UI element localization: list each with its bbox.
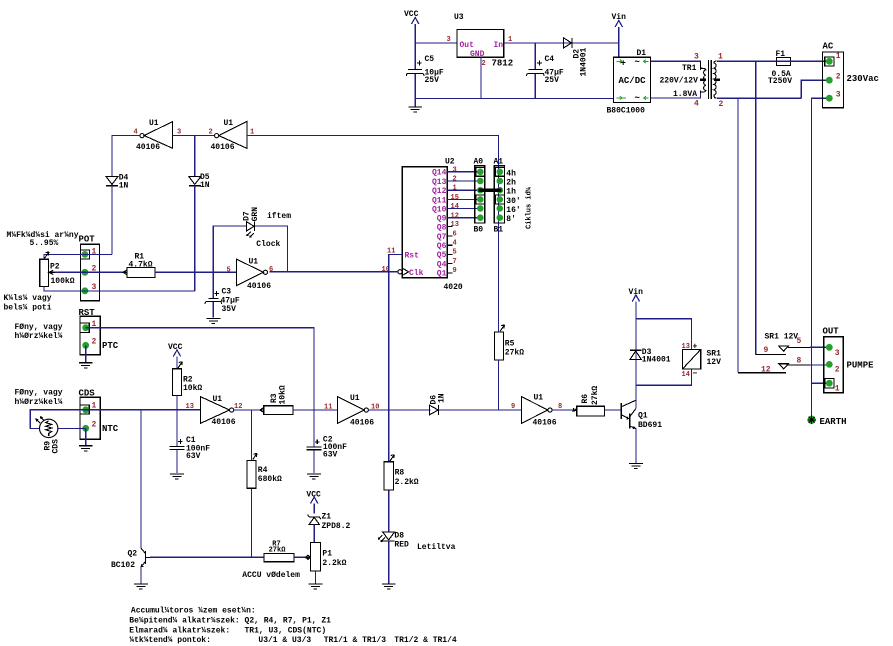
svg-text:+: + (693, 343, 698, 352)
svg-text:B80C1000: B80C1000 (607, 107, 646, 116)
wire P1 to ground (315, 571, 317, 584)
wire AC pad2 to TR1 pin2 (801, 80, 829, 98)
svg-text:TR1: TR1 (682, 64, 697, 73)
wire R3 to gate 11 (293, 409, 338, 411)
diode D6 (429, 393, 446, 415)
connector RST (79, 308, 119, 355)
wire junction to relay contact (live) (755, 61, 757, 354)
ground below D8 (382, 584, 396, 589)
svg-text:Q7: Q7 (437, 233, 447, 242)
svg-text:U1: U1 (224, 119, 234, 128)
wire R7 to P1 wiper (294, 556, 306, 558)
resistor R3 (260, 385, 293, 415)
wire inverter out to D4 (112, 136, 140, 177)
svg-text:U1: U1 (149, 119, 159, 128)
svg-text:Q5: Q5 (437, 251, 447, 260)
svg-text:1N4001: 1N4001 (642, 356, 671, 365)
svg-text:TR1/2 & TR1/4: TR1/2 & TR1/4 (394, 636, 457, 645)
ground below Q1 (629, 463, 643, 468)
resistor R5 (495, 325, 525, 410)
svg-text:C5: C5 (425, 55, 435, 64)
inverter U1 gate B (pins 2-1) (209, 119, 255, 152)
wire gate 12 to R3 (234, 409, 264, 411)
svg-text:iftem: iftem (267, 212, 291, 221)
svg-text:bels¼ poti: bels¼ poti (4, 304, 52, 313)
svg-text:3: 3 (694, 53, 699, 62)
svg-text:1: 1 (836, 52, 841, 61)
svg-text:9: 9 (764, 346, 769, 355)
svg-text:2: 2 (836, 73, 841, 82)
svg-text:2.2kΩ: 2.2kΩ (322, 559, 346, 568)
svg-text:63V: 63V (323, 451, 338, 460)
transistor Q1 BD691 (621, 400, 662, 430)
svg-text:P1: P1 (322, 550, 332, 559)
diode D4 (106, 174, 129, 191)
svg-text:1N: 1N (437, 393, 446, 403)
svg-text:Q2: Q2 (128, 550, 138, 559)
svg-text:230Vac: 230Vac (847, 74, 879, 84)
resistor R8 (384, 410, 419, 532)
jumper bar A0-A1 (1h) (479, 188, 502, 192)
wire POT pad1 to D4 net (85, 253, 112, 255)
svg-text:CDS: CDS (52, 439, 61, 454)
svg-text:27kΩ: 27kΩ (505, 349, 524, 358)
resistor R2 (172, 362, 202, 396)
svg-text:2: 2 (835, 366, 840, 375)
svg-text:PTC: PTC (102, 341, 119, 351)
svg-text:OUT: OUT (823, 327, 840, 337)
VCC above R2 (168, 343, 183, 369)
svg-text:2.2kΩ: 2.2kΩ (395, 478, 419, 487)
svg-text:TR1, U3, CDS(NTC): TR1, U3, CDS(NTC) (245, 626, 327, 635)
svg-text:ZPD8.2: ZPD8.2 (322, 522, 351, 531)
label Kulso vagy belso poti (4, 294, 52, 313)
svg-text:~: ~ (635, 94, 640, 104)
wire gate 10 to D6 (368, 409, 430, 411)
connector CDS (79, 389, 119, 440)
svg-text:5..95%: 5..95% (30, 239, 59, 248)
svg-text:FØny, vagy: FØny, vagy (15, 389, 63, 398)
label Feny vagy (RST) (15, 323, 63, 341)
svg-text:12: 12 (451, 212, 459, 220)
ground below C2 (307, 474, 321, 479)
svg-text:3: 3 (836, 91, 841, 100)
label Mukodesi arany (7, 231, 79, 248)
svg-text:U1: U1 (213, 395, 223, 404)
svg-text:Q6: Q6 (437, 242, 447, 251)
transistor Q2 BC102 (111, 548, 150, 570)
wire R1 to oscillator input (155, 271, 237, 273)
wire to OUT pad1 (812, 382, 830, 384)
svg-text:14: 14 (451, 203, 459, 211)
svg-text:R6: R6 (581, 394, 590, 404)
svg-text:9: 9 (511, 403, 515, 411)
svg-text:10kΩ: 10kΩ (279, 385, 288, 404)
diode D5 (189, 173, 210, 190)
svg-text:AC/DC: AC/DC (619, 76, 647, 86)
wire R6 to Q1 base (604, 409, 621, 411)
svg-text:2: 2 (209, 129, 213, 137)
wire TR1 pin2 net down to relay contact (737, 98, 739, 373)
svg-text:GRN: GRN (251, 207, 260, 222)
svg-text:VCC: VCC (168, 343, 183, 352)
LED D8 (disable indicator) (378, 531, 409, 549)
photoresistor R9 CDS (30, 410, 85, 454)
main signal line (CDS to gate 13) (86, 409, 201, 411)
diode D3 1N4001 (630, 348, 671, 365)
ground below CDS pad2 (79, 428, 93, 451)
bridge rectifier D1 (607, 49, 651, 116)
svg-text:680kΩ: 680kΩ (258, 475, 282, 484)
svg-text:220V/12V: 220V/12V (660, 77, 699, 86)
svg-text:A0: A0 (474, 158, 484, 167)
VCC symbol (top left) (404, 10, 419, 43)
wire U3 In to Vin node (504, 42, 619, 44)
regulator U3 7812 (454, 13, 513, 69)
svg-text:16': 16' (506, 206, 520, 215)
svg-text:NTC: NTC (102, 424, 119, 434)
svg-text:10kΩ: 10kΩ (183, 384, 202, 393)
svg-text:9: 9 (453, 267, 457, 275)
svg-text:T250V: T250V (768, 77, 792, 86)
ground below C5 (408, 99, 422, 113)
wire D5 down to P2 bottom net (194, 186, 196, 291)
wire D6 to gate 9 (438, 409, 521, 411)
svg-text:40106: 40106 (212, 418, 236, 427)
capacitor C2 (306, 410, 347, 473)
svg-text:Accumul¼toros ¼zem eset¼n:: Accumul¼toros ¼zem eset¼n: (131, 606, 256, 615)
capacitor C4 (526, 43, 564, 99)
ground below P1 (309, 584, 323, 589)
LED D7 (clock indicator) (243, 207, 261, 237)
svg-text:1h: 1h (506, 188, 516, 197)
wire gate B pin1 to R5 net (247, 136, 499, 332)
relay coil SR1 (682, 343, 722, 379)
svg-text:Q10: Q10 (432, 206, 447, 215)
wire D1 to TR1 secondary top (651, 61, 701, 70)
svg-text:1: 1 (835, 385, 840, 394)
svg-text:Clock: Clock (256, 240, 280, 249)
resistor R4 (247, 410, 282, 557)
svg-text:27kΩ: 27kΩ (269, 547, 287, 555)
inverter U1 gate (pins 13-12) (186, 395, 243, 427)
svg-text:Q11: Q11 (432, 196, 447, 205)
svg-text:2: 2 (92, 338, 97, 347)
wire TR1 primary top to fuse (717, 60, 776, 62)
svg-text:RST: RST (79, 308, 96, 318)
svg-text:7: 7 (453, 258, 457, 266)
svg-text:Q8: Q8 (437, 224, 447, 233)
svg-text:3: 3 (92, 283, 97, 292)
svg-text:27kΩ: 27kΩ (591, 386, 600, 405)
svg-text:Q9: Q9 (437, 214, 447, 223)
wire POT pad2 to R1 (85, 271, 127, 273)
svg-text:U1: U1 (534, 394, 544, 403)
svg-text:Q12: Q12 (432, 187, 447, 196)
potentiometer P2 (40, 252, 85, 291)
svg-text:¼tk¼tend¼ pontok:: ¼tk¼tend¼ pontok: (129, 636, 211, 645)
svg-text:R5: R5 (505, 340, 515, 349)
svg-text:Be¼pitend¼ alkatr¼szek: Q2, R4: Be¼pitend¼ alkatr¼szek: Q2, R4, R7, P1, … (129, 616, 331, 625)
wire D1 to TR1 secondary bottom (651, 91, 701, 99)
svg-text:U1: U1 (249, 258, 259, 267)
zener Z1 ZPD8.2 (308, 513, 351, 532)
connector A0/B0 (474, 158, 485, 235)
inverter U1 gate (pins 11-10) (324, 394, 379, 427)
wire contact1 to OUT pad3 (810, 346, 829, 348)
svg-text:4020: 4020 (444, 283, 463, 292)
time select labels (506, 169, 520, 224)
svg-text:8': 8' (506, 215, 516, 224)
svg-text:Letiltva: Letiltva (417, 543, 456, 552)
svg-text:4.7kΩ: 4.7kΩ (129, 261, 153, 270)
svg-text:K¼ls¼ vagy: K¼ls¼ vagy (4, 294, 52, 303)
svg-text:6: 6 (269, 266, 273, 274)
svg-text:h¼Ørz¼kel¼: h¼Ørz¼kel¼ (15, 398, 63, 407)
svg-text:2h: 2h (506, 179, 516, 188)
svg-text:5: 5 (797, 337, 802, 346)
svg-text:5: 5 (227, 267, 231, 275)
svg-text:In: In (494, 41, 504, 50)
wire Clk pin to oscillator (270, 271, 398, 273)
wires U2 outputs to A0 pads (447, 172, 480, 218)
svg-text:U2: U2 (445, 158, 455, 167)
svg-text:25V: 25V (425, 76, 440, 85)
connector POT (79, 235, 100, 301)
wire Vin down to Q1 collector (635, 319, 637, 409)
svg-text:12V: 12V (707, 358, 722, 367)
svg-text:EARTH: EARTH (820, 417, 847, 427)
svg-text:100kΩ: 100kΩ (51, 277, 75, 286)
svg-text:Rst: Rst (405, 251, 420, 260)
svg-text:B1: B1 (494, 226, 504, 235)
capacitor C5 (406, 43, 444, 99)
wire Z1 to P1 (313, 524, 315, 542)
svg-text:2: 2 (453, 176, 457, 184)
svg-text:13: 13 (186, 403, 194, 411)
ground rail (left of D1) (415, 98, 613, 100)
svg-text:25V: 25V (545, 76, 560, 85)
EARTH pad (807, 416, 846, 428)
svg-text:C4: C4 (545, 55, 555, 64)
wire Vin down to D1 (618, 43, 620, 57)
svg-text:Q1: Q1 (437, 270, 447, 279)
wire D3 to coil bottom rail (636, 359, 692, 385)
capacitor C3 (205, 272, 240, 318)
wire VCC to U3 pin 3 (415, 42, 457, 44)
svg-text:A1: A1 (494, 158, 504, 167)
ground below RST pad2 (79, 345, 93, 368)
svg-text:+: + (621, 59, 626, 69)
svg-text:4: 4 (694, 100, 699, 109)
svg-text:R8: R8 (395, 469, 405, 478)
wire between gates (173, 135, 215, 137)
U2 pin numbers (382, 166, 459, 275)
svg-text:BC102: BC102 (111, 561, 135, 570)
svg-text:Elmarad¼ alkatr¼szek:: Elmarad¼ alkatr¼szek: (129, 626, 230, 635)
svg-text:Q1: Q1 (638, 412, 648, 421)
wire main line down to Q2 (140, 410, 142, 548)
svg-text:TR1/1 & TR1/3: TR1/1 & TR1/3 (324, 636, 387, 645)
svg-text:Z1: Z1 (322, 513, 332, 522)
svg-text:4: 4 (453, 240, 457, 248)
svg-text:13: 13 (451, 221, 459, 229)
svg-text:5: 5 (453, 249, 457, 257)
Vin symbol (top) (612, 13, 627, 43)
wire gate 8 to R6 (552, 409, 577, 411)
wire Q2 emitter to ground (140, 567, 142, 584)
svg-text:3: 3 (447, 36, 451, 44)
svg-text:Out: Out (460, 41, 475, 50)
wire R2 to main line (176, 396, 178, 410)
svg-text:6: 6 (453, 230, 457, 238)
svg-text:1.8VA: 1.8VA (673, 90, 697, 99)
label Feny vagy (CDS) (15, 389, 63, 408)
IC U2 4020 counter (398, 158, 463, 293)
svg-text:40106: 40106 (136, 143, 160, 152)
svg-text:U1: U1 (350, 394, 360, 403)
svg-text:1N4001: 1N4001 (580, 47, 589, 76)
ground below Q2 (134, 584, 148, 589)
wire junction down to D5 (194, 136, 196, 177)
oscillator inverter U1 (pins 5-6) (227, 258, 274, 292)
svg-text:7812: 7812 (492, 59, 514, 69)
svg-text:P2: P2 (50, 263, 60, 272)
capacitor C1 (170, 410, 211, 473)
wire down to earth pad (811, 383, 813, 415)
svg-text:Q14: Q14 (432, 169, 447, 178)
svg-text:30': 30' (506, 197, 520, 206)
resistor R7 (264, 541, 294, 562)
wire Q2 base to R7 (150, 556, 264, 558)
svg-text:11: 11 (324, 404, 332, 412)
svg-text:40106: 40106 (350, 419, 374, 428)
connector OUT (823, 327, 875, 394)
svg-text:2: 2 (92, 421, 97, 430)
svg-text:PUMPE: PUMPE (847, 361, 875, 371)
svg-text:B0: B0 (474, 226, 484, 235)
connector AC (823, 42, 879, 108)
resistor R1 (123, 253, 155, 278)
svg-text:R4: R4 (258, 466, 268, 475)
svg-text:CDS: CDS (79, 389, 96, 399)
wire POT pad3 to D5 (85, 290, 195, 292)
svg-text:FØny, vagy: FØny, vagy (15, 323, 63, 332)
svg-text:SR1 12V: SR1 12V (765, 333, 799, 342)
ground below C3 (207, 318, 221, 323)
svg-text:4h: 4h (506, 169, 516, 178)
svg-text:1: 1 (453, 185, 457, 193)
inverter U1 gate (pins 9-8) (511, 394, 562, 428)
fuse F1 (768, 50, 792, 86)
svg-text:Q4: Q4 (437, 260, 447, 269)
svg-text:GND: GND (470, 50, 485, 59)
svg-text:12: 12 (761, 365, 771, 374)
svg-text:8: 8 (797, 357, 802, 366)
wire TR1 primary bottom (717, 97, 801, 99)
svg-text:U3: U3 (454, 13, 464, 22)
svg-text:U3/1 & U3/3: U3/1 & U3/3 (258, 636, 311, 645)
VCC above Z1 (306, 491, 321, 514)
relay contact 2 (738, 357, 810, 375)
svg-text:VCC: VCC (404, 10, 419, 19)
svg-text:40106: 40106 (211, 143, 235, 152)
svg-text:13: 13 (682, 343, 690, 351)
svg-text:3: 3 (835, 349, 840, 358)
svg-text:~: ~ (635, 58, 640, 68)
resistor R6 (573, 386, 605, 416)
svg-text:C3: C3 (222, 288, 232, 297)
svg-text:RED: RED (394, 540, 409, 549)
svg-text:40106: 40106 (247, 282, 271, 291)
wire RST pad1 to main line (86, 328, 314, 410)
svg-text:2: 2 (482, 60, 486, 68)
relay contact 1 (756, 337, 810, 355)
svg-text:D8: D8 (394, 531, 404, 540)
svg-text:h¼Ørz¼kel¼: h¼Ørz¼kel¼ (15, 332, 63, 341)
wire AC pad3 down to pump (812, 98, 830, 383)
wire Vin node to relay coil top (636, 319, 692, 350)
svg-text:35V: 35V (222, 305, 237, 314)
pin stubs Q8..Q1 (nc) (447, 226, 452, 272)
wire D4 to POT pad1 (111, 186, 113, 255)
transformer TR1 (660, 53, 724, 110)
svg-text:BD691: BD691 (638, 421, 662, 430)
svg-text:40106: 40106 (533, 419, 557, 428)
inverter U1 gate A (pins 4-3) (134, 119, 182, 152)
svg-text:POT: POT (79, 235, 96, 245)
wire fuse to AC pad 1 (791, 60, 830, 62)
ground below C1 (170, 474, 184, 479)
svg-text:2: 2 (719, 100, 724, 109)
svg-text:Ciklus id¼: Ciklus id¼ (526, 186, 534, 229)
wire contact2 to OUT pad2 (810, 363, 829, 366)
wire U3 GND pin down (480, 57, 482, 98)
svg-text:Clk: Clk (409, 269, 424, 278)
diode D2 1N4001 (564, 38, 589, 77)
feedback loop wires (255, 226, 287, 272)
svg-text:F1: F1 (776, 50, 786, 59)
svg-text:1: 1 (92, 402, 97, 411)
connector A1/B1 (494, 158, 505, 235)
wire D8 to ground (388, 541, 390, 584)
svg-text:AC: AC (823, 42, 834, 52)
wire Rst pin to main line (389, 254, 403, 409)
potentiometer P1 (305, 543, 346, 572)
svg-text:Q13: Q13 (432, 178, 447, 187)
svg-text:3: 3 (453, 166, 457, 174)
wire Q1 emitter to ground (635, 428, 637, 463)
svg-text:15: 15 (451, 194, 459, 202)
svg-text:1: 1 (718, 53, 723, 62)
Vin symbol (relay) (629, 288, 644, 319)
svg-text:63V: 63V (186, 452, 201, 461)
svg-text:−: − (693, 370, 698, 379)
svg-text:1N: 1N (200, 181, 210, 190)
svg-text:14: 14 (682, 371, 690, 379)
svg-text:ACCU vØdelem: ACCU vØdelem (242, 571, 300, 580)
svg-text:1N: 1N (119, 182, 129, 191)
